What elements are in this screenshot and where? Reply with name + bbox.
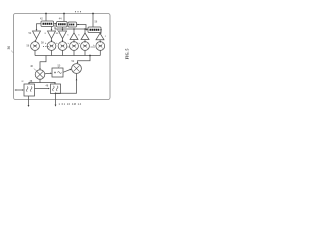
svg-text:54: 54 xyxy=(29,32,32,35)
cascade wire from box3 right xyxy=(77,25,87,30)
node on bus at 64 xyxy=(63,13,65,15)
svg-text:44: 44 xyxy=(59,18,62,21)
sum bus xyxy=(35,55,100,57)
amp A6 up xyxy=(96,33,104,40)
stub to amp4 xyxy=(73,29,75,33)
svg-text:32: 32 xyxy=(21,81,24,83)
arrow box2 to box3 xyxy=(67,24,68,26)
wire M4 to sum bus xyxy=(73,50,75,55)
wire mixer1 to vco box xyxy=(29,79,40,83)
wire amp4 to M4 xyxy=(73,40,75,42)
svg-text:56: 56 xyxy=(27,45,30,48)
bidir arrow border to vco xyxy=(16,89,23,91)
svg-text:42: 42 xyxy=(40,18,43,21)
multiplier M6 xyxy=(96,42,105,51)
wire M5 to sum bus xyxy=(84,50,86,55)
wire bus to box2 xyxy=(63,14,65,22)
wire amp2 to M2 xyxy=(51,39,53,42)
stub to amp5 xyxy=(84,29,86,33)
output arrow below frame xyxy=(28,96,30,106)
vco box 38 xyxy=(24,84,35,96)
wire bus to box 42 xyxy=(45,14,47,22)
wire M1 to sum bus xyxy=(34,50,36,55)
wire mixer1 to filter xyxy=(45,72,51,74)
amp A5 up xyxy=(81,33,89,40)
tap box42 bottom to amp2 xyxy=(51,27,53,31)
multiplier M4 xyxy=(70,42,79,51)
svg-text:56: 56 xyxy=(95,21,98,24)
svg-text:50: 50 xyxy=(58,64,61,67)
wire amp3 to M3 xyxy=(62,39,64,42)
svg-text:6: 6 xyxy=(67,34,69,36)
link dash M3-M4 xyxy=(67,46,69,48)
delay box 3 xyxy=(68,22,77,27)
wire amp5 to M5 xyxy=(84,40,86,42)
cascade arrow box42 to box2 xyxy=(54,23,56,25)
wire bus to box4 xyxy=(92,14,94,28)
tap box2 bottom to amp3 xyxy=(62,27,64,30)
wire filter to mixer2 xyxy=(63,70,70,73)
wire tap box42 to amp xyxy=(37,24,42,30)
link dash M5-M6 xyxy=(90,46,95,48)
multiplier M3 xyxy=(58,42,67,51)
svg-text:48: 48 xyxy=(46,85,49,88)
junction below shifter xyxy=(55,93,57,95)
svg-text:b: b xyxy=(93,45,95,47)
ellipsis dots mid xyxy=(43,46,49,47)
enclosure box 36 xyxy=(14,14,111,100)
delay box 4 xyxy=(88,27,101,33)
ellipsis dots top xyxy=(75,11,81,12)
multiplier M2 xyxy=(47,42,56,51)
filter box 50 xyxy=(52,68,63,77)
svg-text:58: 58 xyxy=(41,42,44,45)
mixer 46 xyxy=(35,70,45,80)
multiplier M5 xyxy=(81,42,90,51)
svg-text:52: 52 xyxy=(72,60,75,63)
delay box 2 xyxy=(57,22,68,28)
svg-text:1 01 10 4M 14: 1 01 10 4M 14 xyxy=(59,102,82,106)
svg-text:8: 8 xyxy=(45,33,47,35)
svg-text:2: 2 xyxy=(105,36,107,38)
wire sum bus to mixer2 xyxy=(78,56,91,63)
stub to amp6 xyxy=(100,30,101,33)
svg-text:9: 9 xyxy=(57,33,59,35)
delay box 42 xyxy=(41,21,54,27)
svg-text:6: 6 xyxy=(78,34,80,36)
wire M6 to sum bus xyxy=(99,50,101,55)
node on bus at 46 xyxy=(45,13,47,15)
wire M2 to sum bus xyxy=(51,50,53,55)
svg-text:36: 36 xyxy=(7,46,11,50)
wire sum bus to mixer1 xyxy=(40,56,46,70)
wire amp6 to M6 xyxy=(99,40,101,42)
multiplier M1 xyxy=(31,42,40,51)
svg-text:FIG. 5: FIG. 5 xyxy=(126,49,130,60)
wire M3 to sum bus xyxy=(62,50,64,55)
svg-text:46: 46 xyxy=(30,65,33,68)
amp A2 xyxy=(48,31,56,39)
mixer 52 xyxy=(72,64,82,74)
svg-text:b: b xyxy=(45,43,47,45)
wire shifter to mixer2 bottom xyxy=(56,74,77,94)
amp A1 xyxy=(33,31,41,39)
shifter box 48 xyxy=(51,84,61,94)
wire vco to shifter box xyxy=(35,88,49,90)
amp A3 xyxy=(59,31,67,39)
distribution line L2 xyxy=(55,25,88,30)
amp A4 up xyxy=(70,33,78,40)
wire amp to mult xyxy=(35,39,36,42)
node on bus at 93 xyxy=(92,13,94,15)
